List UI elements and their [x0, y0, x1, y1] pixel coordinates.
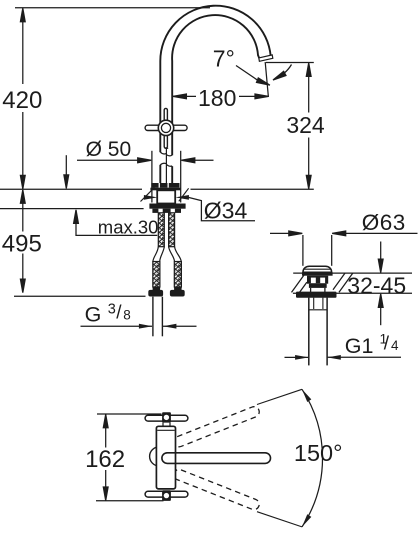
svg-text:/: / [384, 333, 390, 354]
hose nut right [170, 290, 185, 297]
Ø63 arrow left-pointing [332, 231, 346, 236]
dimension Ø50 line left [77, 159, 151, 161]
162 arrow down [103, 487, 108, 501]
riser break wave upper right [166, 155, 172, 156]
supply hose upper right [169, 213, 175, 247]
spout aerator tip cap [259, 55, 273, 61]
swivel side line upper [257, 389, 302, 404]
spout inner riser lower segment [171, 166, 173, 186]
svg-text:G1: G1 [345, 334, 374, 358]
162 arrow up [103, 414, 108, 428]
svg-text:max.30: max.30 [98, 216, 159, 237]
swivel angle arc [302, 389, 323, 527]
svg-text:324: 324 [286, 112, 325, 138]
spout outer curve [160, 6, 271, 153]
162 extension line top [97, 413, 162, 415]
riser break wave lower left [160, 163, 166, 165]
G3/8 dim line right [163, 325, 197, 327]
32-45 upper arrowhead [378, 259, 383, 273]
top handle hub circle [164, 415, 169, 420]
Ø34 leader polyline to label [188, 197, 255, 220]
bottom handle hub [162, 490, 171, 501]
hose transition curve left inner [160, 247, 165, 262]
dimension Ø50 arrow left [181, 158, 195, 163]
svg-text:G: G [85, 303, 102, 327]
162 extension line bottom [96, 500, 164, 502]
deck top line right [191, 188, 314, 190]
top handle bar [145, 415, 188, 421]
162 dim line lower [105, 470, 107, 500]
dimension 420 line upper [22, 9, 24, 85]
swivel side line lower [257, 512, 302, 527]
dimension 420 line lower [22, 112, 24, 189]
7 degree tilted extension line [265, 62, 268, 97]
escutcheon top band [150, 188, 181, 191]
G3/8 tube right edge [161, 297, 163, 337]
Ø50 extension line left [151, 151, 153, 203]
svg-text:Ø 50: Ø 50 [86, 138, 132, 161]
svg-text:3: 3 [108, 302, 116, 318]
dashed spout position upper [172, 405, 260, 448]
cross handle horizontal bar [145, 125, 187, 130]
handle stem bottom bar [165, 147, 169, 149]
drain cap rim line [304, 268, 330, 270]
body outline [156, 426, 175, 489]
top handle hub [162, 412, 171, 422]
swivel arc arrowhead bottom [300, 514, 311, 528]
deck hatch line 4 [339, 273, 353, 292]
swivel arc arrowhead top [300, 388, 311, 402]
dimension 180 line right [239, 95, 268, 97]
drain neck line left [310, 288, 312, 293]
32-45 upper arrow line [380, 242, 382, 273]
hose transition curve right outer [175, 247, 182, 262]
deck section bottom line [293, 292, 412, 294]
bottom handle bar [145, 491, 188, 497]
svg-text:180: 180 [198, 85, 236, 111]
dimension 180 line left [173, 95, 196, 97]
drain cap dome [303, 266, 332, 272]
top hub neck left [162, 423, 164, 427]
dimension 420 arrow up [20, 8, 25, 22]
base flange [149, 204, 185, 209]
bottom reference line 495 [14, 295, 146, 297]
Ø34 oblique tick right [179, 188, 189, 201]
7 degree leader arrowhead [256, 78, 270, 88]
serrated washer [152, 209, 181, 213]
max.30 down arrow line [65, 155, 67, 188]
drain cap base plate [302, 272, 333, 275]
Ø63 arrow right-pointing [289, 231, 303, 236]
hose ferrule right [174, 287, 182, 290]
body mask [156, 426, 175, 489]
hose transition curve right inner [169, 247, 175, 262]
svg-text:/: / [116, 303, 122, 324]
escutcheon cylinder [157, 190, 175, 203]
dimension 495 arrow down [20, 279, 25, 293]
162 dim line upper [105, 415, 107, 448]
max.30 leader with underline [76, 211, 157, 236]
drain body below deck [307, 276, 328, 284]
tailpiece inner line left [313, 298, 315, 309]
tailpiece inner line right [322, 298, 324, 309]
dimension 324 arrow up [306, 63, 311, 77]
max.30 down arrowhead [64, 175, 69, 189]
Ø50 extension line right [180, 151, 182, 203]
dimension 324 line upper [308, 63, 310, 112]
riser center axis line [165, 149, 167, 186]
cross handle vertical bar [164, 108, 167, 148]
G3/8 arrow left-pointing [163, 324, 177, 329]
drain mid section [309, 284, 327, 288]
svg-text:Ø34: Ø34 [204, 197, 248, 223]
solid spout top view [162, 453, 271, 464]
cross handle boss inner circle [161, 123, 170, 132]
Ø63 extension line right [331, 235, 333, 266]
collar slit left [159, 183, 160, 188]
G1 1/4 dim line left [285, 356, 309, 358]
spout outer riser lower segment [159, 165, 161, 186]
G3/8 tube left edge [152, 297, 154, 337]
pivot circle [150, 447, 169, 466]
dimension 495 line upper [22, 190, 24, 232]
dimension Ø50 arrow right [138, 158, 152, 163]
G1 1/4 arrow left-pointing [327, 355, 341, 360]
dimension 180 arrow left [173, 94, 187, 99]
serrated washer notch right [171, 209, 175, 213]
body base collar [151, 183, 179, 188]
drain tailpiece left edge [308, 298, 310, 366]
svg-text:162: 162 [85, 446, 125, 473]
top hub neck right [169, 423, 171, 427]
7 degree angle arc [275, 65, 291, 79]
drain body window right [320, 278, 325, 284]
7 degree leader line [236, 66, 259, 81]
dimension 495 line lower [22, 254, 24, 293]
svg-text:8: 8 [123, 308, 131, 323]
Ø34 arrow left [144, 195, 158, 200]
hose nut left [148, 290, 163, 297]
collar slit right [168, 183, 169, 188]
svg-text:32-45: 32-45 [347, 272, 406, 298]
G1 1/4 arrow right-pointing [295, 355, 309, 360]
top reference line [15, 7, 210, 9]
serrated washer notch left [158, 209, 162, 213]
dimension 324 arrow down [306, 175, 311, 189]
cross handle boss outer circle [158, 120, 173, 135]
dimension 495 arrow up [20, 190, 25, 204]
Ø34 arrow right [175, 195, 189, 200]
drain locknut [296, 292, 337, 298]
svg-text:420: 420 [2, 87, 42, 114]
riser break wave lower right [166, 164, 172, 166]
G3/8 dim line left [81, 325, 153, 327]
svg-text:4: 4 [391, 338, 399, 353]
svg-text:7°: 7° [213, 45, 235, 71]
dimension 420 arrow down [20, 175, 25, 189]
bottom handle hub circle [164, 493, 169, 498]
svg-text:Ø63: Ø63 [362, 210, 406, 235]
body top inner line [157, 429, 175, 431]
spout inner curve [172, 15, 259, 155]
drain neck line right [324, 288, 326, 293]
deck bottom line [0, 208, 144, 210]
drain tailpiece right edge [326, 298, 328, 366]
G1 1/4 dim line right [328, 356, 401, 358]
deck section top line [293, 272, 412, 274]
7 degree arc arrowhead [272, 71, 286, 82]
riser break wave upper left [160, 152, 166, 154]
supply hose lower left [153, 262, 160, 288]
dimension 324 line lower [308, 138, 310, 189]
dimension Ø50 line right [182, 159, 214, 161]
deck hatch line 2 [300, 282, 307, 292]
deck top line left [0, 188, 142, 190]
Ø63 dim line right / label underline [332, 232, 417, 234]
deck hatch line 3 [333, 273, 345, 290]
32-45 lower arrowhead [378, 294, 383, 308]
Ø63 extension line left [302, 235, 304, 266]
tailpiece thread end line [309, 309, 327, 311]
max.30 up arrowhead [74, 210, 79, 224]
deck hatch line 1 [292, 273, 306, 292]
supply hose lower right [174, 262, 181, 288]
svg-text:495: 495 [2, 231, 42, 258]
G3/8 arrow right-pointing [139, 324, 153, 329]
hose transition curve left outer [153, 247, 158, 262]
drain body window left [311, 278, 316, 284]
Ø63 dim line left [270, 232, 302, 234]
hose ferrule left [153, 287, 161, 290]
32-45 lower arrow line [380, 294, 382, 325]
Ø34 oblique tick left [141, 188, 155, 202]
svg-text:150°: 150° [294, 440, 343, 466]
dashed spout position lower [172, 468, 260, 511]
supply hose upper left [158, 213, 164, 247]
dimension 180 arrow right [255, 94, 269, 99]
spout tip horizontal extension [266, 62, 314, 64]
